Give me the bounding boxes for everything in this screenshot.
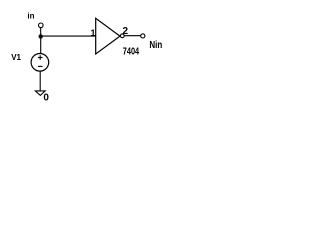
svg-text:Nin: Nin <box>149 39 162 50</box>
wire: vertical from in terminal down to V1 top <box>40 28 42 54</box>
inverter U1 triangle body <box>96 18 120 54</box>
voltage source V1 circle <box>31 54 49 72</box>
svg-text:1: 1 <box>90 28 95 38</box>
V1 minus sign <box>38 65 43 67</box>
terminal (open circle) at node Nin <box>141 34 145 38</box>
terminal (open circle) at node in <box>39 23 44 28</box>
wire: inverter output to terminal <box>124 35 141 37</box>
svg-text:in: in <box>27 12 34 21</box>
svg-text:7404: 7404 <box>123 45 139 57</box>
V1 plus sign <box>38 57 43 59</box>
junction dot <box>39 34 43 38</box>
ground symbol <box>35 91 45 96</box>
inverter U1 output bubble <box>120 34 124 38</box>
svg-text:V1: V1 <box>11 53 21 62</box>
wire: V1 bottom to ground <box>39 71 41 91</box>
wire: horizontal from junction to inverter input <box>41 35 96 37</box>
svg-text:0: 0 <box>43 93 49 104</box>
